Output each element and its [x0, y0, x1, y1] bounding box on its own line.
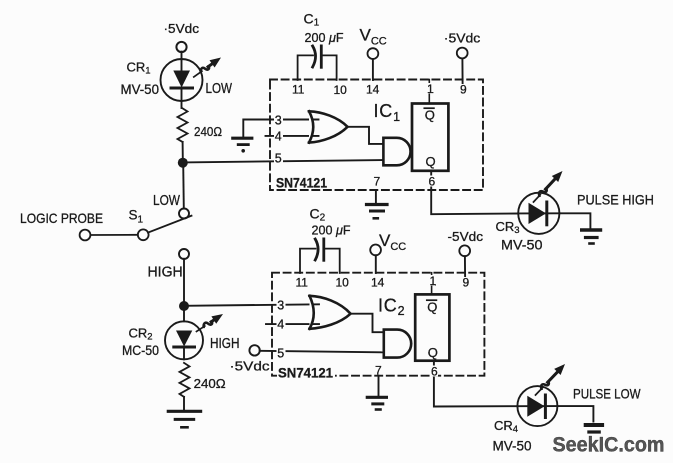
wire terminal to CR1 [181, 52, 183, 60]
svg-text:LOGIC PROBE: LOGIC PROBE [20, 210, 103, 226]
wire CR4 to ground [557, 406, 593, 421]
pin labels IC2 top [296, 275, 470, 290]
wire Vcc to pin14 IC2 [375, 255, 377, 273]
svg-text:240Ω: 240Ω [194, 124, 222, 139]
svg-text:·5Vdc: ·5Vdc [444, 30, 481, 45]
svg-text:-5Vdc: -5Vdc [448, 229, 484, 244]
svg-text:6: 6 [431, 364, 438, 378]
label SN74121 (IC2) [277, 368, 335, 379]
LED CR2 MC-50 [165, 314, 223, 359]
capacitor C1 200uF [298, 46, 337, 80]
resistor 240ohm (bottom) [180, 363, 226, 397]
svg-text:MV-50: MV-50 [501, 236, 543, 252]
pin labels IC1 top [292, 82, 467, 97]
wire +5Vdc to pin5 IC2 [260, 351, 384, 353]
svg-text:6: 6 [429, 174, 436, 188]
svg-text:240Ω: 240Ω [194, 376, 226, 391]
wire +5Vdc to pin9 IC1 [461, 58, 463, 83]
svg-text:11: 11 [296, 275, 309, 289]
OR gate (IC2) [310, 296, 351, 329]
svg-text:14: 14 [366, 83, 380, 97]
ground (IC1 pin7) [367, 205, 388, 219]
node junction A [178, 158, 188, 168]
svg-text:HIGH: HIGH [148, 264, 183, 281]
wire pin7 IC2 to ground [378, 376, 380, 396]
wire junction down to LOW contact [182, 163, 185, 208]
ground (CR4) [586, 425, 602, 432]
pin labels IC2 left [277, 299, 286, 361]
IC1 dashed box [270, 80, 483, 191]
svg-text:4: 4 [277, 318, 284, 332]
svg-text:HIGH: HIGH [210, 335, 240, 352]
svg-text:4: 4 [275, 130, 282, 144]
LED CR3 MV-50 [518, 171, 563, 234]
resistor 240ohm (top) [178, 108, 223, 142]
svg-text:SeekIC.com: SeekIC.com [553, 434, 665, 457]
svg-text:7: 7 [375, 363, 382, 377]
svg-text:Q: Q [426, 154, 436, 169]
svg-text:11: 11 [292, 83, 305, 97]
node -5Vdc terminal (IC2 pin9) [448, 229, 484, 256]
svg-text:LOW: LOW [206, 80, 233, 97]
wire pin6 IC2 to CR4 [430, 361, 517, 407]
svg-text:9: 9 [463, 275, 470, 289]
OR gate (IC1) [309, 111, 348, 142]
capacitor C2 200uF [300, 239, 340, 273]
node +5Vdc terminal (top left) [164, 21, 200, 52]
wire junction B to pin3 IC2 [184, 304, 319, 306]
wire resistor to junction [182, 142, 184, 159]
wire pin4 IC2 stub [266, 323, 319, 325]
svg-text:1: 1 [427, 82, 434, 96]
node HIGH contact [179, 249, 189, 259]
IC2 dashed box [272, 273, 484, 376]
Q block (IC2) [415, 294, 449, 360]
ground (IC2 pin7) [367, 397, 386, 409]
svg-text:9: 9 [460, 83, 467, 97]
svg-text:MV-50: MV-50 [493, 438, 532, 454]
wire pin1 IC1 stub [428, 80, 430, 104]
LED CR1 MV-50 [161, 58, 222, 102]
wire CR3 to ground [559, 213, 590, 227]
svg-text:·5Vdc: ·5Vdc [230, 358, 271, 373]
wire pin4 IC1 stub [266, 135, 319, 137]
svg-text:PULSE HIGH: PULSE HIGH [577, 192, 654, 208]
Q block (IC1) [412, 104, 448, 171]
svg-text:3: 3 [275, 114, 282, 128]
svg-text:7: 7 [374, 174, 381, 188]
svg-text:·5Vdc: ·5Vdc [164, 21, 200, 36]
wire CR1 to resistor [181, 101, 183, 108]
wire pin7 IC1 to ground [375, 190, 377, 203]
svg-text:SN74121: SN74121 [278, 364, 333, 380]
svg-text:200 μF: 200 μF [312, 223, 351, 238]
switch S1 [80, 209, 192, 241]
svg-text:LOW: LOW [153, 192, 181, 209]
wire junction B down to CR2 [183, 306, 185, 321]
svg-text:SN74121: SN74121 [276, 174, 327, 190]
node Vcc terminal (IC2) [370, 231, 406, 256]
svg-text:3: 3 [277, 299, 284, 313]
wire -5Vdc to pin9 IC2 [464, 256, 466, 276]
svg-text:10: 10 [336, 275, 350, 289]
LED CR4 MV-50 [517, 364, 565, 426]
svg-text:1: 1 [430, 274, 437, 288]
svg-text:5: 5 [277, 347, 284, 361]
AND gate (IC2) [384, 330, 411, 358]
svg-text:5: 5 [275, 152, 282, 166]
wire junction to pin5 IC1 [183, 160, 384, 162]
ground (IC1 pins 3-4) [233, 120, 319, 153]
svg-text:MV-50: MV-50 [121, 81, 160, 97]
node +5Vdc terminal (IC2 pin5) [230, 345, 271, 373]
wire OR1 output to AND1 [348, 127, 384, 144]
wire resistor to ground [183, 397, 185, 411]
wire Vcc to pin14 IC1 [372, 59, 374, 80]
svg-text:Q: Q [428, 345, 438, 360]
wire pin6 IC1 to CR3 [428, 170, 519, 214]
wire OR2 output to AND2 [351, 314, 384, 333]
svg-text:PULSE LOW: PULSE LOW [573, 386, 641, 402]
node junction B [179, 301, 189, 311]
node Vcc terminal (IC1) [360, 25, 387, 59]
svg-text:14: 14 [371, 275, 385, 289]
svg-text:Q: Q [427, 299, 437, 314]
pin labels IC1 left [274, 114, 283, 166]
svg-text:Q: Q [425, 107, 435, 122]
svg-text:200 μF: 200 μF [305, 30, 344, 45]
wire pin1 IC2 stub [431, 273, 433, 295]
ground (CR3) [582, 230, 601, 244]
ground (below CR2 resistor) [168, 411, 200, 427]
AND gate (IC1) [383, 138, 410, 166]
svg-text:10: 10 [334, 83, 348, 97]
svg-text:MC-50: MC-50 [122, 342, 159, 358]
wire HIGH contact down to junction B [183, 259, 185, 302]
node +5Vdc terminal (IC1 pin9) [444, 30, 481, 58]
